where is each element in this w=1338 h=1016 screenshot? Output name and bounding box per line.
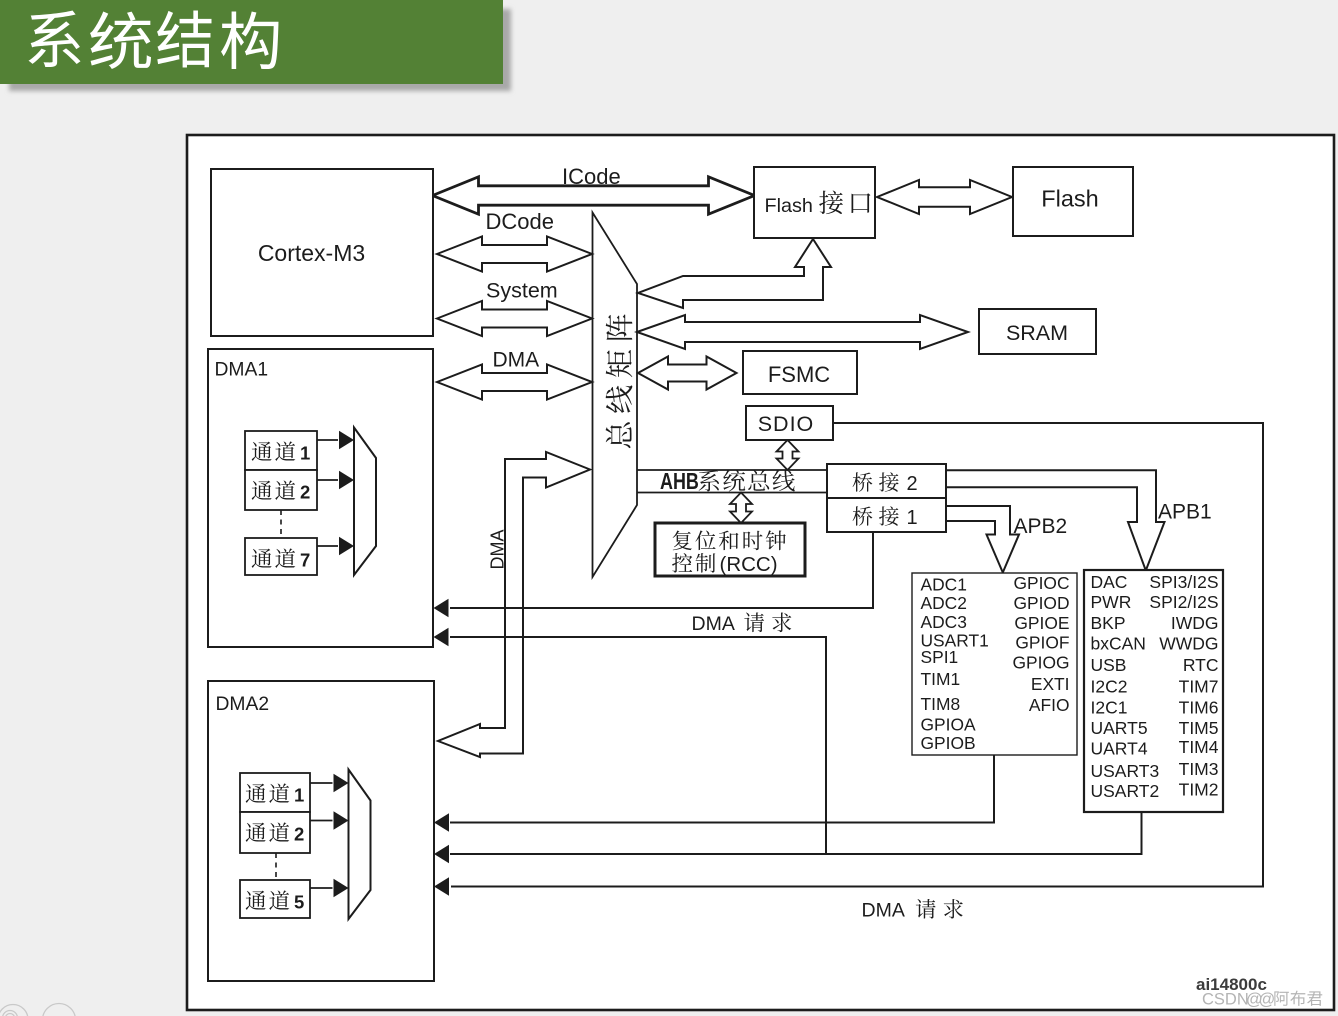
svg-text:1: 1 [300, 443, 310, 464]
svg-text:GPIOF: GPIOF [1015, 633, 1069, 653]
svg-text:UART4: UART4 [1091, 739, 1148, 759]
svg-text:TIM8: TIM8 [921, 694, 961, 714]
svg-text:TIM2: TIM2 [1179, 780, 1219, 800]
svg-text:1: 1 [907, 507, 918, 529]
svg-text:RTC: RTC [1183, 655, 1219, 675]
svg-text:I2C1: I2C1 [1091, 698, 1128, 718]
svg-text:SPI2/I2S: SPI2/I2S [1149, 592, 1218, 612]
svg-text:(RCC): (RCC) [720, 553, 778, 576]
svg-text:DMA1: DMA1 [215, 359, 269, 380]
svg-text:USB: USB [1091, 655, 1127, 675]
svg-text:EXTI: EXTI [1031, 674, 1070, 694]
svg-text:SPI3/I2S: SPI3/I2S [1149, 572, 1218, 592]
svg-text:WWDG: WWDG [1159, 634, 1218, 654]
svg-text:CSDN: CSDN [1202, 991, 1249, 1009]
svg-text:GPIOD: GPIOD [1013, 593, 1069, 613]
svg-text:TIM6: TIM6 [1179, 698, 1219, 718]
svg-text:2: 2 [300, 482, 310, 503]
svg-text:SPI1: SPI1 [921, 647, 959, 667]
svg-text:UART5: UART5 [1091, 718, 1148, 738]
svg-text:DMA2: DMA2 [216, 694, 270, 715]
svg-text:GPIOA: GPIOA [921, 715, 976, 735]
svg-text:TIM1: TIM1 [921, 669, 961, 689]
svg-text:APB2: APB2 [1014, 515, 1068, 538]
svg-text:AFIO: AFIO [1029, 695, 1070, 715]
svg-text:USART3: USART3 [1091, 761, 1160, 781]
svg-text:DMA: DMA [692, 613, 735, 635]
svg-text:1: 1 [294, 785, 304, 806]
svg-text:I2C2: I2C2 [1091, 677, 1128, 697]
svg-text:TIM3: TIM3 [1179, 759, 1219, 779]
svg-text:IWDG: IWDG [1171, 613, 1219, 633]
svg-text:7: 7 [300, 550, 310, 571]
svg-text:TIM5: TIM5 [1179, 718, 1219, 738]
svg-text:5: 5 [294, 892, 304, 913]
svg-text:TIM4: TIM4 [1179, 737, 1219, 757]
svg-text:Flash: Flash [765, 195, 813, 217]
svg-text:DMA: DMA [862, 900, 905, 922]
svg-text:ADC2: ADC2 [921, 593, 967, 613]
svg-text:Cortex-M3: Cortex-M3 [258, 240, 365, 266]
svg-text:SDIO: SDIO [758, 412, 815, 436]
svg-text:DAC: DAC [1091, 572, 1128, 592]
svg-text:TIM7: TIM7 [1179, 677, 1219, 697]
svg-text:DCode: DCode [486, 209, 554, 234]
svg-text:@: @ [1259, 991, 1276, 1009]
svg-text:DMA: DMA [488, 530, 508, 570]
svg-text:ADC1: ADC1 [921, 575, 967, 595]
svg-text:GPIOC: GPIOC [1013, 573, 1069, 593]
svg-text:ICode: ICode [562, 164, 621, 189]
svg-text:ADC3: ADC3 [921, 612, 967, 632]
svg-text:APB1: APB1 [1158, 501, 1212, 524]
svg-text:BKP: BKP [1091, 613, 1126, 633]
svg-text:GPIOB: GPIOB [921, 733, 976, 753]
svg-text:2: 2 [294, 824, 304, 845]
svg-text:PWR: PWR [1091, 592, 1132, 612]
svg-text:GPIOG: GPIOG [1012, 653, 1069, 673]
svg-text:AHB: AHB [660, 469, 699, 495]
svg-text:2: 2 [907, 473, 918, 495]
svg-text:GPIOE: GPIOE [1014, 613, 1069, 633]
svg-text:Flash: Flash [1041, 186, 1098, 212]
svg-text:System: System [486, 279, 558, 303]
svg-text:FSMC: FSMC [768, 362, 830, 387]
svg-text:SRAM: SRAM [1006, 321, 1068, 345]
svg-text:DMA: DMA [493, 349, 540, 372]
svg-text:bxCAN: bxCAN [1091, 634, 1146, 654]
svg-text:USART2: USART2 [1091, 781, 1160, 801]
